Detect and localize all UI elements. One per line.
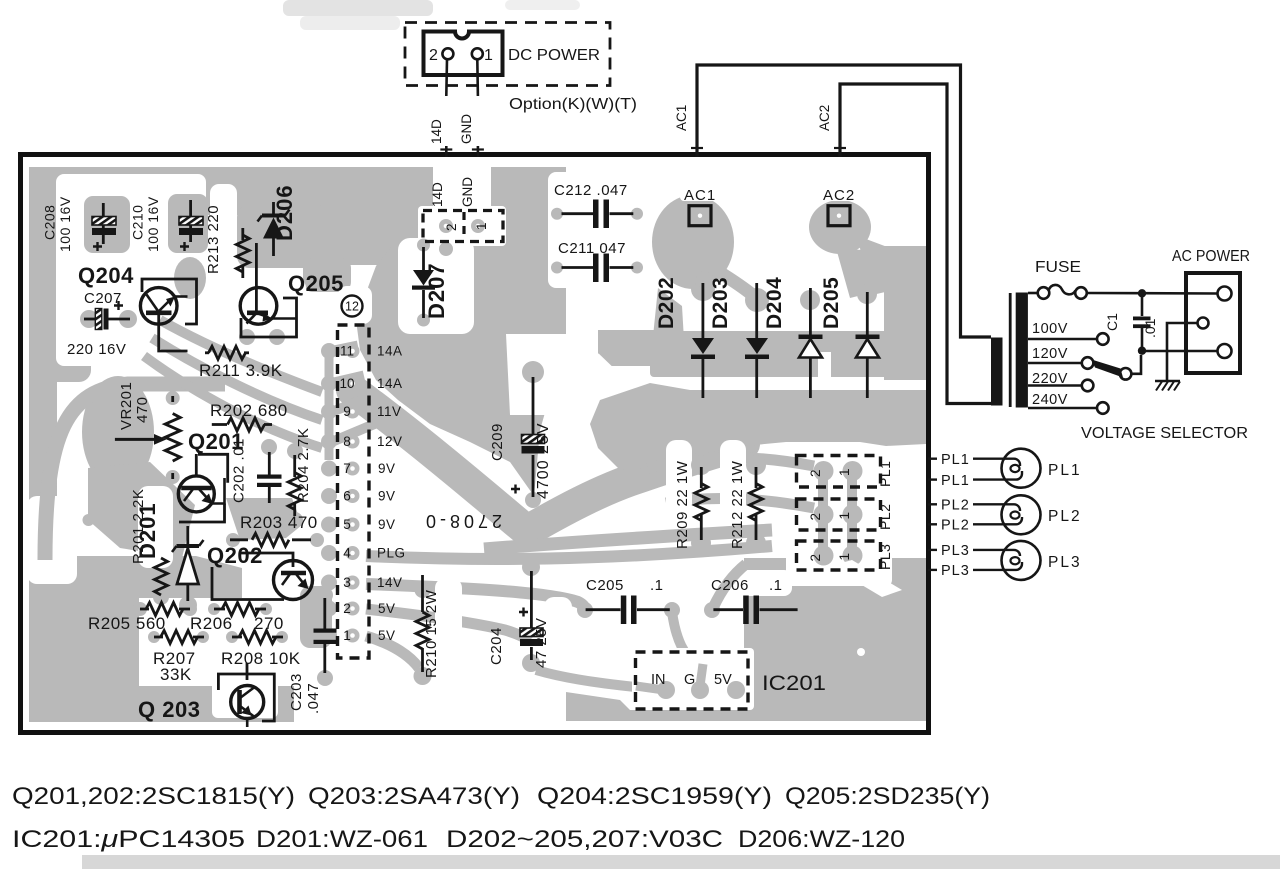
svg-text:IC201:μPC14305: IC201:μPC14305	[12, 826, 245, 853]
svg-text:Q202: Q202	[207, 543, 263, 568]
C204/R210/C203 pads	[522, 558, 540, 576]
pad AC2	[823, 187, 855, 226]
gray finger C210 cap	[168, 194, 208, 253]
ground	[1167, 323, 1198, 381]
svg-text:9: 9	[343, 404, 351, 419]
capacitor C206	[711, 577, 798, 624]
svg-text:100 16V: 100 16V	[145, 196, 161, 252]
pad AC1	[684, 187, 716, 226]
svg-text:1: 1	[484, 47, 493, 64]
svg-text:.1: .1	[650, 577, 664, 594]
connector 14D/GND dashed box	[423, 211, 503, 242]
svg-text:12V: 12V	[377, 434, 403, 449]
svg-text:5V: 5V	[714, 672, 732, 688]
svg-text:AC1: AC1	[674, 105, 689, 131]
white pocket Q205	[232, 278, 306, 342]
wire AC2	[840, 84, 1002, 404]
svg-text:11V: 11V	[377, 404, 402, 419]
svg-text:GND: GND	[459, 114, 474, 144]
svg-text:4: 4	[343, 546, 351, 561]
svg-text:IN: IN	[651, 672, 666, 688]
DC POWER connector body	[424, 32, 503, 76]
svg-text:470: 470	[134, 396, 151, 423]
white pocket C206 label	[700, 570, 792, 596]
svg-text:DC POWER: DC POWER	[508, 47, 600, 64]
resistor R205	[88, 603, 190, 634]
svg-text:C205: C205	[586, 577, 624, 594]
resistor R213	[205, 205, 249, 278]
svg-text:FUSE: FUSE	[1035, 259, 1081, 276]
svg-text:Option(K)(W)(T): Option(K)(W)(T)	[509, 96, 637, 113]
svg-text:Q201,202:2SC1815(Y): Q201,202:2SC1815(Y)	[12, 783, 295, 810]
svg-text:1: 1	[343, 628, 351, 643]
white island C211/C212	[548, 172, 662, 288]
svg-text:.01: .01	[1142, 318, 1158, 338]
svg-text:9V: 9V	[378, 489, 396, 504]
capacitor C208	[42, 196, 117, 252]
svg-text:100 16V: 100 16V	[57, 196, 73, 252]
diode D202	[655, 277, 715, 398]
capacitor C202	[231, 438, 282, 503]
svg-text:2: 2	[808, 554, 823, 562]
blob between Q201 and R203	[226, 498, 302, 540]
IC201 white pocket + pads	[632, 648, 754, 710]
svg-text:33K: 33K	[160, 665, 192, 684]
blob right of Q204	[174, 257, 206, 299]
svg-text:R212 22 1W: R212 22 1W	[729, 460, 746, 549]
D207 pads	[417, 239, 430, 252]
white strip 14D/GND	[433, 160, 491, 206]
svg-text:3: 3	[343, 575, 351, 590]
white pocket D207	[398, 238, 474, 334]
diode D204	[763, 277, 823, 398]
transistor Q205	[240, 243, 344, 337]
transformer T1	[991, 338, 1003, 406]
svg-text:8: 8	[343, 434, 351, 449]
svg-text:AC2: AC2	[823, 187, 855, 204]
svg-text:AC1: AC1	[684, 187, 716, 204]
white bay right of C209	[506, 334, 642, 466]
svg-text:14A: 14A	[377, 376, 403, 391]
svg-text:Q204: Q204	[78, 263, 134, 288]
svg-text:Q205:2SD235(Y): Q205:2SD235(Y)	[785, 783, 990, 810]
svg-text:5V: 5V	[378, 601, 396, 616]
svg-text:PL1: PL1	[877, 461, 893, 487]
lamp PL3	[928, 549, 937, 551]
capacitor C210	[130, 196, 204, 252]
svg-text:12: 12	[345, 300, 359, 314]
svg-text:D204: D204	[763, 277, 786, 329]
potentiometer VR201	[115, 382, 180, 479]
svg-text:Q203:2SA473(Y): Q203:2SA473(Y)	[308, 783, 520, 810]
junction node A	[1138, 289, 1146, 297]
transistor Q202	[207, 543, 313, 600]
capacitor C212	[554, 182, 633, 228]
svg-text:R204 2.7K: R204 2.7K	[295, 428, 312, 503]
svg-text:R202 680: R202 680	[210, 401, 288, 420]
svg-text:7: 7	[343, 461, 351, 476]
svg-text:PL3: PL3	[1048, 554, 1082, 571]
svg-text:R201 2.2K: R201 2.2K	[130, 489, 147, 564]
svg-text:5V: 5V	[378, 628, 396, 643]
svg-text:Q205: Q205	[288, 271, 344, 296]
svg-text:D205: D205	[820, 277, 843, 329]
zener diode D206	[258, 184, 298, 256]
lamp PL2	[928, 503, 937, 505]
transistor Q204	[78, 263, 197, 351]
svg-text:PL1: PL1	[1048, 462, 1082, 479]
transistor Q201	[178, 429, 244, 522]
svg-text:R210 15 2W: R210 15 2W	[423, 589, 440, 678]
svg-text:PL2: PL2	[877, 504, 893, 530]
svg-text:GND: GND	[460, 177, 475, 207]
svg-text:C203: C203	[288, 673, 305, 711]
svg-text:R203 470: R203 470	[240, 513, 318, 532]
IC201 dashed box	[636, 652, 827, 709]
svg-text:1: 1	[837, 512, 852, 520]
svg-text:100V: 100V	[1032, 321, 1068, 337]
svg-text:D206:WZ-120: D206:WZ-120	[738, 826, 905, 853]
wire GND	[476, 60, 479, 97]
svg-text:D207: D207	[424, 262, 449, 319]
transistor Q203	[138, 663, 274, 727]
svg-text:G: G	[684, 672, 695, 688]
svg-text:9V: 9V	[378, 461, 396, 476]
svg-text:PL3: PL3	[941, 543, 970, 559]
svg-text:R211 3.9K: R211 3.9K	[199, 361, 283, 380]
svg-text:2: 2	[808, 469, 823, 477]
svg-text:C1: C1	[1104, 313, 1120, 331]
svg-text:9V: 9V	[378, 517, 396, 532]
node 12	[342, 296, 363, 317]
svg-text:D202: D202	[655, 277, 678, 329]
AC2 blob	[809, 200, 871, 254]
capacitor C205	[586, 577, 670, 624]
AC1 blob	[652, 195, 734, 289]
wire 14D	[445, 60, 448, 97]
capacitor C211	[558, 240, 633, 282]
resistor R209	[674, 460, 708, 549]
resistor R210	[416, 575, 440, 678]
pads column left of connector	[321, 343, 337, 359]
DC POWER dashed outline	[405, 23, 610, 86]
resistor R204	[288, 428, 312, 516]
svg-text:C212 .047: C212 .047	[554, 182, 628, 199]
lamp PL1	[928, 458, 937, 460]
svg-text:C207: C207	[84, 290, 122, 307]
svg-text:2: 2	[429, 47, 438, 64]
diode D203	[709, 277, 769, 398]
svg-text:R209 22 1W: R209 22 1W	[674, 460, 691, 549]
capacitor C207	[67, 290, 130, 358]
svg-text:C209: C209	[489, 423, 506, 461]
svg-text:1: 1	[474, 222, 489, 230]
svg-text:2: 2	[343, 601, 351, 616]
svg-text:220 16V: 220 16V	[67, 341, 126, 358]
R209/R212 pads	[691, 455, 711, 475]
top band across left/middle	[29, 167, 449, 215]
band A: wide diagonal trace through C209 valley	[352, 390, 744, 531]
svg-text:240V: 240V	[1032, 392, 1068, 408]
svg-text:.047: .047	[305, 683, 322, 714]
svg-text:IC201: IC201	[762, 672, 826, 695]
VR201 region blobs	[82, 376, 154, 488]
diode band behind D202-205	[650, 331, 926, 377]
svg-text:PL2: PL2	[941, 498, 970, 514]
svg-text:R213 220: R213 220	[205, 205, 222, 274]
svg-text:PL2: PL2	[941, 518, 970, 534]
resistor R206	[190, 603, 284, 634]
Q205 pads	[239, 329, 255, 345]
svg-text:120V: 120V	[1032, 346, 1068, 362]
junction node B	[1138, 347, 1146, 355]
zener diode D201	[135, 502, 204, 601]
selector switch arm	[1092, 360, 1124, 378]
svg-text:14A: 14A	[377, 344, 403, 359]
svg-text:PL3: PL3	[941, 563, 970, 579]
traces T2-T7	[484, 530, 772, 549]
svg-text:D203: D203	[709, 277, 732, 329]
connector PL1 dashed	[797, 456, 894, 488]
svg-text:D202~205,207:V03C: D202~205,207:V03C	[446, 826, 723, 853]
svg-text:14D: 14D	[429, 119, 444, 144]
white island over C208/C210 labels	[56, 174, 206, 259]
connector PL2 dashed	[797, 499, 894, 530]
svg-text:R206: R206	[190, 614, 233, 633]
svg-text:D206: D206	[272, 184, 297, 241]
resistor R201	[130, 489, 168, 595]
svg-text:.1: .1	[769, 577, 783, 594]
arcs feeding PL boxes	[648, 457, 814, 468]
svg-text:PL3: PL3	[877, 544, 893, 570]
svg-text:2: 2	[808, 513, 823, 521]
C209 pads	[522, 361, 544, 383]
svg-text:6: 6	[343, 489, 351, 504]
svg-text:PLG: PLG	[377, 546, 406, 561]
resistor R207	[153, 631, 204, 685]
white pocket Q203	[212, 666, 278, 718]
left column	[29, 167, 58, 362]
svg-text:C202 .01: C202 .01	[231, 438, 248, 503]
capacitor C1	[1141, 293, 1144, 316]
svg-text:14D: 14D	[430, 182, 445, 207]
svg-text:C204: C204	[488, 627, 505, 665]
bottom-right mass M3	[744, 558, 926, 721]
svg-text:2: 2	[444, 223, 459, 231]
svg-text:PL2: PL2	[1048, 508, 1082, 525]
svg-text:PL1: PL1	[941, 452, 970, 468]
capacitor C203	[288, 598, 337, 714]
svg-text:AC POWER: AC POWER	[1172, 248, 1250, 265]
C205/C206 pads	[577, 602, 593, 618]
svg-text:Q204:2SC1959(Y): Q204:2SC1959(Y)	[537, 783, 772, 810]
connector PL3 dashed	[797, 541, 894, 570]
svg-text:D201:WZ-061: D201:WZ-061	[256, 826, 428, 853]
svg-text:2708-0: 2708-0	[422, 511, 502, 531]
resistor R211	[199, 346, 283, 380]
svg-text:11: 11	[340, 344, 354, 359]
svg-text:47 25V: 47 25V	[533, 617, 550, 668]
bottom-left block	[29, 592, 139, 722]
svg-text:R205 560: R205 560	[88, 614, 166, 633]
white channel above band A / around C209 top	[392, 406, 524, 513]
svg-text:C206: C206	[711, 577, 749, 594]
center mass M1 around 14D/GND connector down to diagonal	[356, 167, 566, 496]
resistor R203	[230, 513, 318, 546]
diode D207	[412, 247, 449, 319]
svg-text:VR201: VR201	[118, 382, 135, 430]
svg-text:C211 047: C211 047	[558, 240, 626, 257]
gray finger C208 cap	[84, 196, 130, 253]
right-center mass M2	[590, 383, 926, 470]
top-middle mass down around D206/R213	[237, 205, 315, 268]
svg-text:PL1: PL1	[941, 473, 970, 489]
svg-text:AC2: AC2	[817, 105, 832, 131]
svg-text:4700 25V: 4700 25V	[535, 422, 552, 499]
resistor R212	[729, 460, 763, 549]
resistor R202	[210, 401, 288, 431]
connector P12 pads and pins	[339, 344, 405, 644]
svg-text:1: 1	[837, 468, 852, 476]
svg-text:10: 10	[339, 376, 354, 391]
svg-text:14V: 14V	[377, 575, 403, 590]
svg-text:5: 5	[343, 517, 351, 532]
capacitor C204	[488, 571, 550, 668]
svg-text:C210: C210	[130, 205, 146, 240]
wire AC1	[697, 65, 991, 337]
diagonal traces Q204 to connector	[160, 320, 322, 392]
svg-text:C208: C208	[42, 205, 58, 240]
svg-text:270: 270	[254, 614, 284, 633]
C207 pads	[80, 310, 98, 328]
diode D205	[820, 277, 880, 398]
PCB board outline	[21, 155, 929, 733]
connector P12 dashed	[338, 325, 370, 658]
svg-text:Q 203: Q 203	[138, 697, 200, 722]
resistor R208	[221, 631, 301, 669]
white pocket R213 text	[210, 184, 237, 280]
white slashes in M3	[830, 560, 902, 597]
svg-text:R208 10K: R208 10K	[221, 649, 301, 668]
svg-text:VOLTAGE SELECTOR: VOLTAGE SELECTOR	[1081, 425, 1248, 442]
capacitor C209	[489, 377, 552, 499]
svg-text:1: 1	[837, 553, 852, 561]
